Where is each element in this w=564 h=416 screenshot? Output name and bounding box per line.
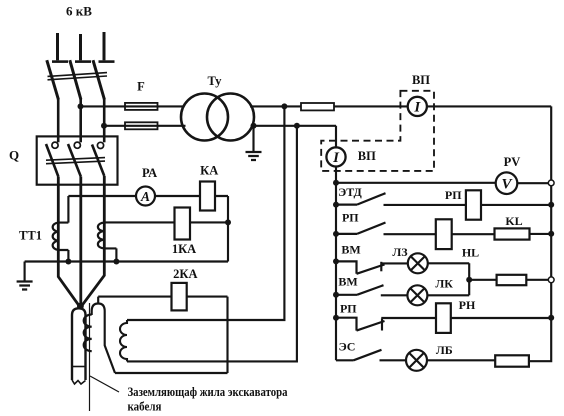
node vertical feed 2 — [294, 123, 300, 129]
lamp LZ — [408, 253, 428, 273]
wire ES to lamp LB — [380, 359, 407, 361]
node RN right rail — [548, 315, 554, 321]
node KL right rail — [548, 231, 554, 237]
transformer Tu primary winding — [181, 94, 228, 141]
circuit breaker Q box — [37, 136, 118, 184]
node ground tap — [251, 123, 257, 129]
resistor KL — [495, 228, 530, 239]
current transformer TT1 phase A winding — [53, 223, 59, 250]
breaker Q contact jaw phase A — [52, 142, 58, 148]
cable transformer winding bumps — [84, 315, 92, 352]
breaker Q blade phase A — [46, 144, 58, 177]
wire CT3 lead bottom — [104, 248, 116, 261]
terminal ring PV right — [548, 180, 554, 186]
relay coil HL — [436, 219, 452, 249]
contact RP1 — [336, 223, 386, 234]
leader line to caption — [90, 376, 119, 392]
node cable junction — [77, 303, 84, 310]
node PV left rail — [333, 180, 339, 186]
instrument VP1 dashed enclosure — [321, 91, 434, 171]
svg-text:Заземляющаф жила экскаватора: Заземляющаф жила экскаватора — [128, 384, 288, 399]
wire vertical feed 2 — [127, 126, 297, 362]
wire ammeter PA row — [68, 195, 136, 197]
wire phase A incoming stub — [56, 33, 59, 60]
fuse F3 secondary — [301, 103, 334, 110]
node RP1 left rail — [333, 231, 339, 237]
svg-text:КА: КА — [200, 164, 218, 178]
breaker Q contact jaw phase C — [97, 142, 103, 148]
wire HL to KL — [452, 233, 495, 235]
wire RP coil to rail — [481, 204, 551, 206]
contact VM2 — [336, 285, 384, 295]
relay coil 1KA — [175, 208, 191, 240]
disconnector QS fixed contact bar phase B — [75, 60, 91, 63]
node lamp merge — [466, 277, 472, 283]
current transformer TT1 phase C winding — [98, 223, 104, 249]
disconnector QS fixed contact bar phase C — [99, 60, 115, 63]
svg-text:кабеля: кабеля — [128, 399, 162, 414]
wire phase A to breaker — [57, 99, 60, 142]
contact VM1 — [336, 261, 385, 273]
breaker Q linkage bar — [46, 158, 105, 164]
winding of cable transformer secondary loop — [120, 320, 127, 361]
wire vertical feed 1 — [127, 106, 284, 320]
svg-text:Q: Q — [9, 148, 19, 163]
wire phase B below breaker — [79, 177, 82, 308]
wire phase C incoming stub — [103, 32, 106, 60]
breaker Q blade phase B — [68, 144, 81, 177]
wire RP2 to RN coil — [381, 317, 436, 319]
grounding core line — [89, 303, 91, 411]
cable body — [72, 308, 86, 380]
svg-text:РП: РП — [445, 188, 462, 202]
svg-text:F: F — [137, 80, 145, 94]
svg-text:6 кВ: 6 кВ — [66, 4, 92, 19]
fuse F2 — [125, 122, 158, 129]
cable torn end — [72, 380, 86, 384]
lamp LB — [406, 350, 427, 371]
svg-text:I: I — [332, 150, 340, 166]
svg-text:ВП: ВП — [412, 73, 430, 87]
node tap phase C to fuse — [101, 123, 107, 129]
wire phase C tap to fuse F2 — [104, 125, 186, 127]
relay coil KA — [200, 182, 215, 211]
resistor lamps row — [497, 275, 527, 285]
fuse F1 — [125, 103, 158, 110]
wire common to ground — [25, 260, 228, 262]
op voltmeter PV — [496, 172, 518, 194]
svg-text:ЛБ: ЛБ — [436, 343, 453, 357]
wire VM1 to lamp LZ — [381, 262, 408, 264]
node vertical feed 1 — [281, 103, 287, 109]
disconnector QS blade phase B — [70, 60, 81, 99]
node VM1 left rail — [333, 258, 339, 264]
wire ladder right rail — [529, 106, 551, 361]
svg-text:PV: PV — [504, 155, 521, 169]
wire RN to rail — [451, 317, 551, 319]
node CT1 bottom on common — [65, 259, 71, 265]
disconnector QS blade phase C — [93, 60, 104, 99]
disconnector QS blade phase A — [47, 60, 59, 99]
ground left — [17, 262, 33, 290]
wire CT1 lead top — [58, 196, 68, 223]
node VM2 left rail — [333, 292, 339, 298]
svg-text:РП: РП — [340, 302, 357, 316]
node tap phase B to fuse — [78, 103, 84, 109]
breaker Q contact jaw phase B — [74, 142, 80, 148]
wire ladder left rail top — [335, 126, 337, 360]
terminal ring lamps right — [548, 277, 554, 283]
wire phase B tap to fuse F1 — [81, 105, 185, 107]
ground under transformer — [246, 126, 262, 160]
wire VP1 to right rail — [427, 105, 551, 107]
disconnector QS fixed contact bar phase A — [52, 60, 68, 63]
cable cut line — [72, 366, 86, 368]
svg-text:HL: HL — [462, 245, 479, 259]
svg-text:ЛК: ЛК — [435, 277, 453, 291]
breaker Q blade phase C — [92, 145, 104, 177]
relay coil RN — [436, 303, 451, 333]
wire Tu output top — [250, 105, 301, 107]
node ETD left rail — [333, 202, 339, 208]
contact RP2 — [336, 318, 385, 331]
op instrument VP1 ammeter — [408, 97, 427, 116]
relay coil 2KA — [172, 283, 187, 311]
op ammeter PA — [136, 187, 155, 206]
svg-text:ЭС: ЭС — [339, 339, 356, 353]
wire 1KA row — [104, 221, 228, 223]
wire resistor to rail — [526, 279, 548, 281]
svg-text:ВП: ВП — [358, 149, 376, 163]
wire fuse F3 to instrument VP1 — [334, 105, 408, 107]
svg-text:ВМ: ВМ — [341, 242, 360, 256]
wire RP1 to HL — [384, 233, 436, 235]
contact RP2 stop tick — [381, 319, 383, 331]
svg-text:РН: РН — [459, 298, 476, 312]
wire PA to KA — [155, 195, 200, 197]
lamp LK — [407, 285, 427, 305]
cable transformer housing — [92, 297, 115, 373]
wire merge to resistor — [469, 279, 496, 281]
svg-text:ЛЗ: ЛЗ — [392, 245, 407, 259]
svg-text:I: I — [413, 100, 421, 116]
node RP row right rail — [548, 202, 554, 208]
svg-text:KL: KL — [505, 214, 522, 228]
voltmeter PV row wire — [336, 182, 551, 185]
contact ETD — [336, 193, 386, 204]
svg-text:РП: РП — [342, 211, 359, 225]
wire 2KA loop top — [98, 297, 227, 373]
wire CT1 lead bottom — [58, 250, 68, 262]
node CT3 bottom on common — [113, 259, 119, 265]
wire Tu output bottom — [251, 125, 336, 127]
wire ETD to RP coil — [384, 204, 466, 206]
resistor ES row — [495, 355, 529, 366]
node KA 1KA junction — [225, 219, 231, 225]
transformer Tu secondary winding — [207, 94, 254, 141]
wire phase B incoming stub — [79, 34, 82, 60]
node RP2 left rail — [333, 315, 339, 321]
svg-text:РА: РА — [142, 166, 157, 180]
wire LB to resistor — [427, 359, 495, 361]
contact VM1 stop tick — [380, 262, 382, 272]
svg-text:А: А — [140, 189, 150, 204]
relay coil RP — [466, 190, 481, 219]
svg-text:2КА: 2КА — [173, 267, 197, 281]
wire KL to rail — [530, 233, 552, 235]
wire LK to merge — [427, 294, 469, 296]
wire LZ to merge — [428, 263, 469, 295]
wire phase C below breaker — [80, 176, 104, 308]
contact ES — [336, 350, 382, 361]
svg-text:ТТ1: ТТ1 — [19, 229, 42, 243]
wire VM2 to lamp LK — [381, 294, 408, 296]
wire phase B to breaker — [79, 99, 82, 142]
instrument VP2 ammeter — [326, 147, 345, 166]
wire phase C to breaker — [103, 99, 106, 142]
svg-text:ЭТД: ЭТД — [338, 185, 362, 199]
disconnector QS linkage bar — [48, 73, 108, 80]
wire phase A below breaker — [58, 177, 80, 308]
svg-text:Ту: Ту — [208, 74, 223, 88]
wire KA to corner — [215, 196, 228, 262]
svg-text:1КА: 1КА — [172, 242, 196, 256]
svg-text:ВМ: ВМ — [338, 274, 357, 288]
